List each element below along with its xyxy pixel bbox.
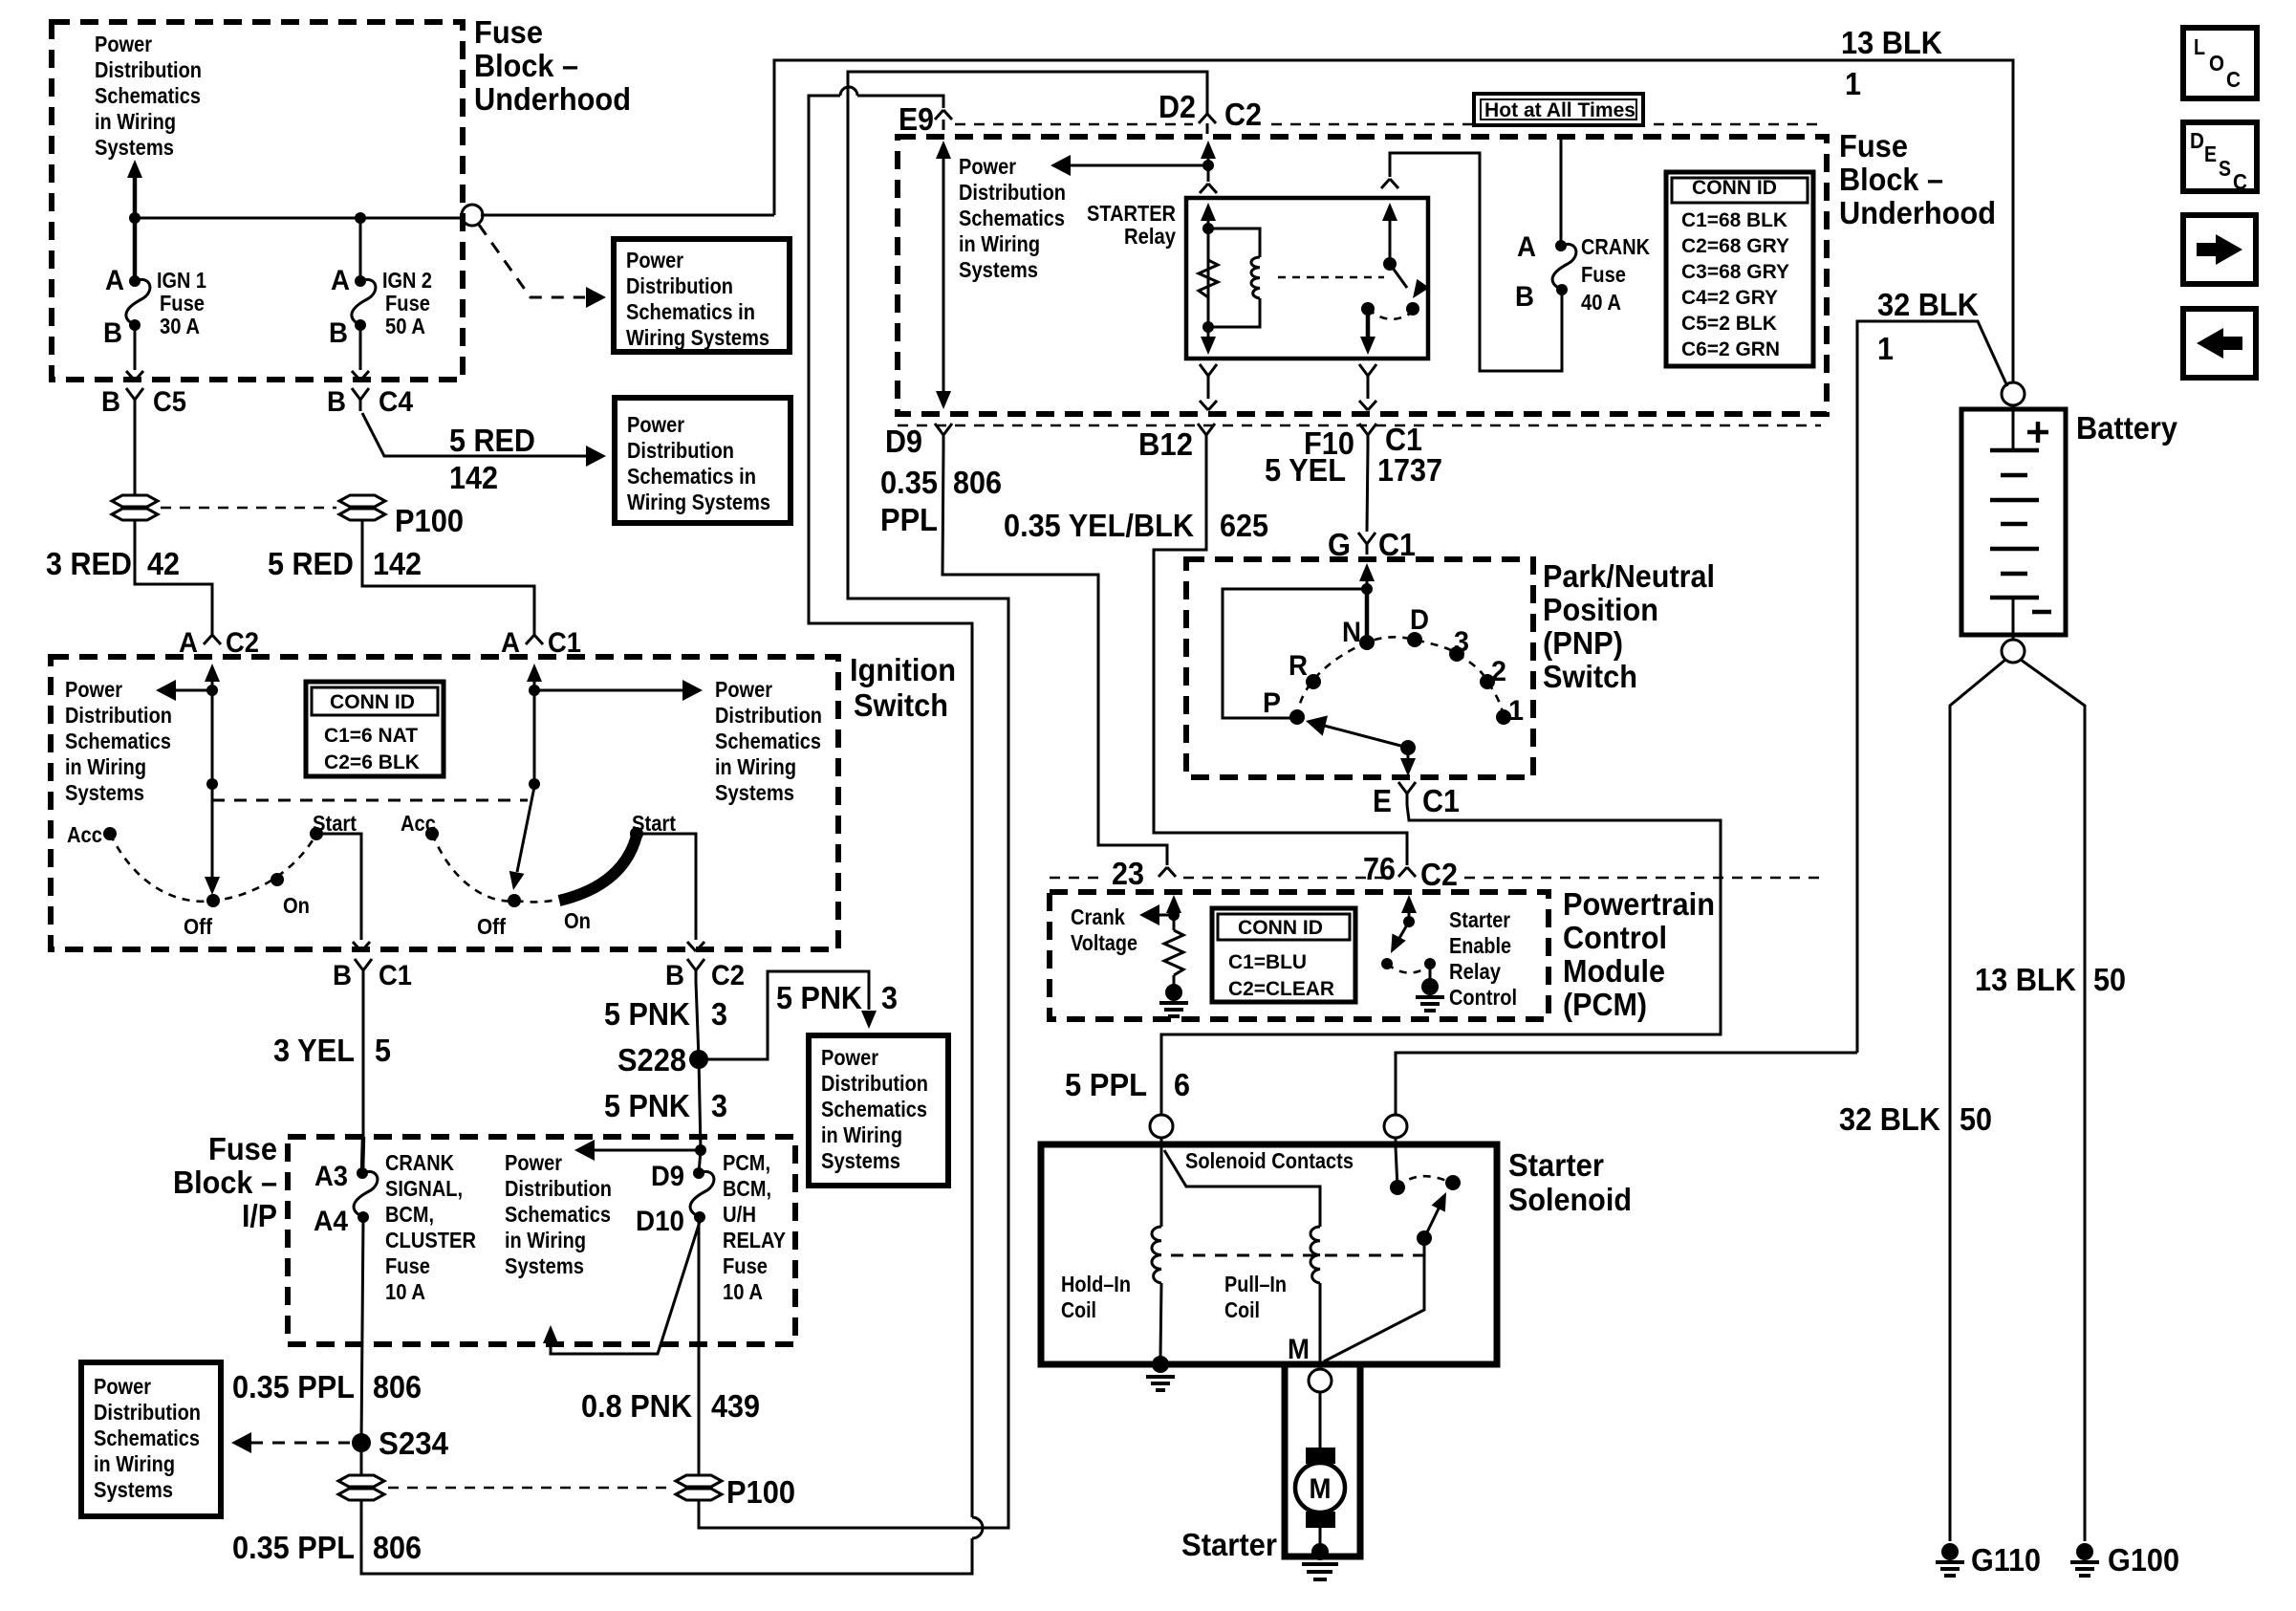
svg-text:CONN ID: CONN ID: [330, 691, 415, 713]
svg-text:D9: D9: [885, 424, 922, 459]
svg-text:Fuse: Fuse: [1839, 128, 1908, 163]
svg-text:in Wiring: in Wiring: [95, 109, 176, 134]
svg-text:0.35 PPL: 0.35 PPL: [232, 1530, 355, 1565]
PNP contacts arc: [1297, 637, 1504, 717]
svg-text:Systems: Systems: [715, 780, 794, 805]
battery plus sign: [2027, 430, 2048, 435]
crank voltage resistor: [1164, 930, 1183, 975]
svg-text:D: D: [1410, 604, 1429, 636]
wire IGN1 fuse feed: [133, 218, 138, 281]
PNP feed loop to P contact: [1361, 583, 1373, 595]
contact Acc pole2: [425, 827, 439, 840]
svg-text:C6=2 GRN: C6=2 GRN: [1681, 338, 1780, 360]
battery box: [1961, 409, 2066, 635]
svg-text:E9: E9: [899, 101, 934, 137]
connector D2 C2: [1199, 114, 1216, 123]
svg-text:Power: Power: [505, 1150, 562, 1175]
pull-in coil: [1310, 1227, 1320, 1283]
connector B C1: [355, 959, 372, 982]
main feed wire to battery 13 BLK 1: [481, 60, 2013, 382]
svg-text:Systems: Systems: [505, 1253, 584, 1278]
svg-text:5 RED: 5 RED: [268, 546, 354, 581]
svg-text:C1=6 NAT: C1=6 NAT: [324, 725, 418, 747]
wire 3 RED 42 upper: [134, 411, 137, 496]
svg-text:I/P: I/P: [242, 1198, 277, 1233]
fuse block I/P dashed box: [288, 1137, 795, 1344]
contact 3: [1449, 646, 1464, 662]
svg-text:C2=CLEAR: C2=CLEAR: [1228, 978, 1334, 1000]
svg-text:1: 1: [1845, 66, 1861, 101]
svg-text:625: 625: [1220, 508, 1268, 543]
svg-text:B: B: [333, 960, 352, 991]
svg-text:Ignition: Ignition: [850, 652, 956, 687]
svg-text:Systems: Systems: [94, 1477, 173, 1502]
svg-text:C2=68 GRY: C2=68 GRY: [1681, 235, 1789, 257]
svg-text:A4: A4: [314, 1206, 348, 1237]
svg-text:B: B: [665, 960, 684, 991]
wire 0.35 PPL 806 lower routing to E9: [361, 96, 972, 1574]
svg-text:Powertrain: Powertrain: [1563, 886, 1715, 922]
svg-text:50: 50: [1960, 1101, 1992, 1137]
wire 5 RED branch to ref box B: [362, 413, 586, 456]
contact Acc pole1: [103, 827, 117, 840]
svg-text:Systems: Systems: [959, 257, 1038, 282]
svg-text:Underhood: Underhood: [1839, 195, 1996, 230]
svg-text:C1=BLU: C1=BLU: [1228, 951, 1307, 973]
svg-text:Control: Control: [1563, 920, 1667, 955]
svg-text:5 PNK: 5 PNK: [604, 1088, 690, 1123]
svg-text:142: 142: [449, 460, 498, 495]
svg-text:Pull–In: Pull–In: [1224, 1272, 1287, 1296]
pole1 feed arrow into box: [205, 664, 220, 682]
svg-text:C1: C1: [548, 627, 581, 659]
pole2 wiper wire: [533, 690, 536, 784]
svg-text:Distribution: Distribution: [65, 703, 172, 728]
fuse IGN 2 50A feed: [359, 218, 362, 281]
svg-text:Distribution: Distribution: [959, 180, 1066, 205]
svg-text:M: M: [1310, 1473, 1332, 1505]
pole1 contacts arc: [110, 834, 316, 902]
svg-text:Start: Start: [313, 811, 357, 836]
svg-text:30 A: 30 A: [160, 314, 200, 338]
PNP feed arrow: [1359, 563, 1375, 581]
svg-text:Schematics: Schematics: [821, 1097, 927, 1121]
svg-text:S234: S234: [379, 1426, 449, 1461]
starter housing: [1285, 1364, 1360, 1557]
connector B C5: [126, 388, 143, 411]
svg-text:Starter: Starter: [1181, 1527, 1277, 1562]
svg-text:G110: G110: [1971, 1542, 2041, 1578]
pole2 wiper arrow: [517, 787, 534, 872]
starter motor wire top: [1319, 1392, 1322, 1448]
svg-text:C2: C2: [226, 627, 259, 659]
PCM ground right: [1429, 964, 1432, 980]
PNP wiper: [1400, 740, 1416, 755]
svg-text:A: A: [179, 627, 198, 659]
svg-text:Distribution: Distribution: [94, 1400, 201, 1425]
CONN ID box fb2: [1666, 172, 1813, 366]
svg-text:5 PNK: 5 PNK: [604, 996, 690, 1032]
svg-text:6: 6: [1174, 1067, 1190, 1102]
svg-text:Switch: Switch: [854, 687, 948, 723]
wire battery to solenoid contact: [1396, 1053, 1857, 1115]
LOC box: [2183, 28, 2257, 98]
svg-text:C4: C4: [379, 386, 413, 418]
svg-text:B: B: [327, 386, 346, 418]
svg-text:Schematics: Schematics: [959, 206, 1065, 230]
svg-text:5 PPL: 5 PPL: [1065, 1067, 1147, 1102]
dashed arrow S234 to ref box D: [250, 1442, 350, 1445]
svg-text:Schematics: Schematics: [94, 1426, 200, 1450]
svg-text:Off: Off: [184, 914, 212, 939]
connector B C2: [687, 959, 704, 982]
svg-text:C3=68 GRY: C3=68 GRY: [1681, 261, 1789, 283]
svg-text:Distribution: Distribution: [95, 57, 202, 82]
svg-text:142: 142: [373, 546, 422, 581]
pull-in coil feed: [1164, 1150, 1320, 1227]
svg-text:Power: Power: [959, 154, 1016, 179]
starter motor wire bottom: [1319, 1528, 1322, 1545]
svg-text:Hot at All Times: Hot at All Times: [1484, 99, 1635, 121]
svg-text:1737: 1737: [1377, 452, 1442, 488]
hold-in coil wire: [1160, 1147, 1163, 1227]
wire 5 RED 142 lower: [362, 519, 534, 635]
svg-text:0.35: 0.35: [880, 465, 938, 500]
PCM dashed box: [1050, 892, 1549, 1019]
battery - terminal: [2012, 598, 2015, 640]
svg-text:Distribution: Distribution: [626, 273, 733, 298]
svg-text:E: E: [1373, 783, 1392, 818]
svg-text:3: 3: [711, 996, 727, 1032]
wire 3 RED 42 lower: [135, 519, 212, 635]
svg-text:A: A: [331, 265, 350, 296]
connector 23: [1159, 867, 1176, 877]
ground wires from battery: [1950, 660, 2005, 1541]
svg-text:Underhood: Underhood: [474, 81, 631, 117]
PNP dashed box: [1186, 559, 1533, 777]
svg-text:Schematics in: Schematics in: [626, 299, 755, 324]
svg-text:5 YEL: 5 YEL: [1265, 452, 1346, 488]
ref box C power distribution schematics: [809, 1035, 948, 1186]
svg-text:806: 806: [373, 1530, 422, 1565]
svg-text:On: On: [564, 908, 591, 933]
svg-text:42: 42: [147, 546, 180, 581]
grommet P100 left: [112, 495, 158, 520]
connector B12: [1198, 424, 1215, 446]
svg-text:Switch: Switch: [1543, 659, 1637, 694]
svg-text:Coil: Coil: [1061, 1297, 1096, 1322]
wire 0.8 PNK 439: [699, 72, 1207, 1528]
svg-text:10 A: 10 A: [723, 1279, 763, 1304]
svg-text:C4=2 GRY: C4=2 GRY: [1681, 287, 1778, 309]
svg-text:in Wiring: in Wiring: [959, 231, 1040, 256]
svg-text:C1=68 BLK: C1=68 BLK: [1681, 209, 1787, 231]
connector into relay: [1200, 184, 1217, 193]
svg-text:(PCM): (PCM): [1563, 987, 1647, 1022]
svg-text:Wiring Systems: Wiring Systems: [626, 325, 769, 350]
node junction right: [355, 212, 366, 224]
svg-text:C5: C5: [153, 386, 186, 418]
splice S228: [689, 1050, 708, 1069]
svg-text:Off: Off: [477, 914, 506, 939]
svg-text:5: 5: [375, 1033, 391, 1068]
fuse block underhood 2 dashed box: [898, 137, 1827, 414]
svg-text:2: 2: [1491, 656, 1506, 687]
svg-text:32 BLK: 32 BLK: [1877, 287, 1979, 322]
battery minus sign: [2032, 610, 2051, 615]
ref box B power distribution schematics: [615, 398, 791, 523]
svg-text:Fuse: Fuse: [208, 1131, 277, 1166]
contact 2: [1480, 674, 1495, 689]
svg-text:32 BLK: 32 BLK: [1839, 1101, 1940, 1137]
relay resistor: [1199, 260, 1218, 297]
svg-text:D9: D9: [651, 1161, 684, 1192]
svg-text:in Wiring: in Wiring: [94, 1451, 175, 1476]
contact On pole1: [271, 873, 284, 886]
thin connector line bottom of fb2: [898, 425, 1821, 427]
svg-text:B12: B12: [1138, 426, 1193, 462]
contact Start pole2: [630, 827, 643, 840]
svg-text:Starter: Starter: [1508, 1147, 1604, 1183]
starter motor: [1295, 1463, 1345, 1513]
svg-text:3: 3: [881, 980, 898, 1015]
wire 5 PNK 3 upper: [696, 982, 699, 1059]
crank fuse feed: [1560, 137, 1563, 246]
svg-text:Distribution: Distribution: [715, 703, 822, 728]
svg-text:Starter: Starter: [1449, 907, 1510, 932]
svg-text:Wiring Systems: Wiring Systems: [627, 490, 770, 514]
contact N: [1359, 635, 1375, 650]
wire right terminal to contact: [1396, 1147, 1397, 1187]
starter solenoid box: [1041, 1144, 1497, 1364]
svg-text:BCM,: BCM,: [385, 1202, 434, 1227]
CONN ID box ignition: [306, 682, 444, 776]
svg-text:B: B: [103, 317, 122, 349]
svg-text:in Wiring: in Wiring: [715, 754, 796, 779]
contact P: [1289, 709, 1305, 725]
svg-text:13 BLK: 13 BLK: [1975, 962, 2076, 997]
note arrow left from relay feed: [1202, 160, 1214, 171]
ground G110: [1936, 1543, 1964, 1576]
svg-text:STARTER: STARTER: [1087, 201, 1176, 226]
svg-text:Relay: Relay: [1124, 224, 1176, 249]
wire 5 PNK 3 branch to ref box C: [699, 971, 869, 1059]
svg-text:806: 806: [373, 1369, 422, 1404]
svg-text:S228: S228: [617, 1042, 686, 1078]
svg-text:Position: Position: [1543, 592, 1658, 627]
svg-text:3 RED: 3 RED: [46, 546, 132, 581]
connector A C1: [526, 635, 543, 644]
svg-text:Enable: Enable: [1449, 933, 1511, 958]
hold-in coil: [1152, 1227, 1161, 1283]
svg-text:PCM,: PCM,: [723, 1150, 770, 1175]
svg-text:Start: Start: [632, 811, 676, 836]
svg-text:Fuse: Fuse: [385, 1253, 430, 1278]
U/H relay fuse D9 D10: [699, 1150, 701, 1173]
svg-text:B: B: [101, 386, 120, 418]
battery + terminal: [2002, 382, 2025, 405]
svg-text:806: 806: [953, 465, 1002, 500]
brush top: [1306, 1448, 1335, 1464]
svg-text:A3: A3: [314, 1161, 348, 1192]
D10 tap to note arrow: [551, 1222, 700, 1354]
svg-text:M: M: [1288, 1334, 1310, 1365]
relay switch: [1382, 203, 1397, 221]
wire 32 BLK 1: [1857, 321, 2007, 1053]
ground G100: [2070, 1543, 2099, 1576]
mechanical dashed link: [212, 799, 528, 802]
svg-text:CRANK: CRANK: [1581, 234, 1650, 259]
svg-text:Park/Neutral: Park/Neutral: [1543, 558, 1715, 594]
svg-text:IGN 1: IGN 1: [157, 268, 206, 293]
svg-text:Acc: Acc: [67, 822, 102, 847]
connector E9: [935, 110, 952, 120]
relay coil: [1208, 229, 1260, 257]
svg-text:Distribution: Distribution: [627, 438, 734, 463]
svg-text:in Wiring: in Wiring: [65, 754, 146, 779]
svg-text:C2: C2: [1420, 857, 1458, 892]
svg-text:Fuse: Fuse: [1581, 262, 1626, 287]
wire 5 YEL 1737: [1367, 446, 1368, 532]
svg-text:A: A: [1517, 231, 1536, 263]
relay out connectors: [1200, 364, 1217, 387]
PNP wiper out: [1407, 748, 1410, 764]
svg-text:Distribution: Distribution: [505, 1176, 612, 1201]
svg-text:439: 439: [711, 1388, 760, 1424]
svg-text:P100: P100: [395, 503, 464, 538]
svg-text:G100: G100: [2108, 1542, 2179, 1578]
svg-text:A: A: [105, 265, 124, 296]
svg-text:5 PNK: 5 PNK: [776, 980, 862, 1015]
starter relay box: [1186, 198, 1428, 359]
bus wire in left fuse block: [135, 217, 461, 220]
fuse IGN 2 50A: [355, 275, 366, 287]
svg-text:76: 76: [1363, 851, 1396, 886]
grommet P100 right: [339, 495, 385, 520]
starter enable relay control switch: [1401, 895, 1417, 913]
svg-text:CRANK: CRANK: [385, 1150, 454, 1175]
right arrow box: [2183, 215, 2256, 284]
contact Off pole1: [206, 894, 220, 907]
svg-text:Fuse: Fuse: [160, 291, 205, 316]
note arrow left pole1: [206, 685, 218, 696]
svg-text:D: D: [2190, 128, 2204, 153]
svg-text:Module: Module: [1563, 953, 1665, 989]
svg-text:C5=2 BLK: C5=2 BLK: [1681, 313, 1777, 335]
svg-text:Block –: Block –: [1839, 162, 1943, 197]
CONN ID box PCM: [1212, 908, 1355, 1002]
hop over 0.8 PNK wire: [972, 1517, 983, 1538]
note arrow left from PCM fuse: [695, 1144, 706, 1156]
svg-text:10 A: 10 A: [385, 1279, 425, 1304]
svg-text:O: O: [2209, 51, 2224, 76]
svg-text:Systems: Systems: [65, 780, 144, 805]
svg-text:C1: C1: [1422, 783, 1460, 818]
svg-text:CONN ID: CONN ID: [1238, 917, 1323, 939]
crank fuse to relay switch: [1390, 153, 1562, 371]
ignition switch dashed box: [51, 657, 838, 949]
brush bottom: [1306, 1512, 1335, 1528]
svg-text:Power: Power: [627, 412, 684, 437]
left arrow box: [2183, 309, 2256, 378]
contact On pole2 / engaged thick arc: [559, 836, 637, 901]
svg-text:CLUSTER: CLUSTER: [385, 1228, 476, 1252]
node junction left: [129, 212, 141, 224]
svg-text:N: N: [1342, 617, 1361, 648]
svg-text:D10: D10: [636, 1206, 684, 1237]
contact Start pole1: [310, 827, 323, 840]
solenoid terminal left: [1150, 1115, 1173, 1138]
svg-text:U/H: U/H: [723, 1202, 756, 1227]
svg-text:5 RED: 5 RED: [449, 423, 535, 458]
svg-text:Hold–In: Hold–In: [1061, 1272, 1131, 1296]
solenoid mech dashed link: [1171, 1254, 1424, 1257]
svg-text:SIGNAL,: SIGNAL,: [385, 1176, 463, 1201]
contact 1: [1496, 709, 1511, 725]
grommet P100 bottom left: [360, 1443, 363, 1476]
svg-text:3 YEL: 3 YEL: [273, 1033, 355, 1068]
svg-text:L: L: [2194, 34, 2205, 59]
connector B C4: [352, 388, 369, 411]
svg-text:50: 50: [2093, 962, 2126, 997]
svg-text:PPL: PPL: [880, 502, 938, 537]
hop over D2 wire: [840, 87, 857, 96]
thin connector line PCM: [1050, 877, 1101, 880]
svg-text:Coil: Coil: [1224, 1297, 1260, 1322]
wire 5 PNK 3 lower: [699, 1059, 701, 1150]
svg-text:Fuse: Fuse: [723, 1253, 768, 1278]
svg-text:Schematics: Schematics: [505, 1202, 611, 1227]
svg-text:C: C: [2233, 169, 2247, 194]
svg-text:Power: Power: [821, 1045, 878, 1070]
svg-text:BCM,: BCM,: [723, 1176, 771, 1201]
grommet P100 bottom right: [676, 1475, 722, 1500]
pole1 wiper wire: [211, 690, 214, 877]
connector F10 C1: [1359, 424, 1376, 446]
svg-text:C2=6 BLK: C2=6 BLK: [324, 751, 420, 773]
contact R: [1306, 674, 1321, 689]
svg-text:Power: Power: [715, 677, 772, 702]
fuse IGN 1 30A: [129, 275, 141, 287]
svg-text:Power: Power: [65, 677, 122, 702]
wire 0.35 YEL/BLK 625 to PCM 76: [1154, 446, 1407, 865]
wire IGN2 fuse out: [359, 325, 362, 370]
svg-text:IGN 2: IGN 2: [382, 268, 432, 293]
svg-text:1: 1: [1508, 695, 1524, 727]
svg-text:Power: Power: [626, 248, 683, 272]
svg-text:P: P: [1263, 687, 1281, 719]
wire E C1 to solenoid 5 PPL 6: [1161, 805, 1721, 1115]
DESC box: [2183, 122, 2257, 191]
battery cells: [2012, 405, 2015, 450]
svg-text:Solenoid: Solenoid: [1508, 1182, 1632, 1217]
splice S234: [352, 1433, 371, 1452]
svg-text:C: C: [2226, 67, 2241, 92]
svg-text:Acc: Acc: [401, 811, 436, 836]
svg-text:On: On: [283, 893, 310, 918]
wire start pole1 out: [316, 834, 361, 940]
svg-text:Power: Power: [95, 32, 152, 56]
svg-text:R: R: [1289, 650, 1308, 682]
wire 0.35 PPL 806 upper: [361, 1217, 363, 1443]
svg-text:A: A: [501, 627, 520, 659]
M terminal circle: [1309, 1369, 1332, 1392]
svg-text:Fuse: Fuse: [474, 14, 543, 50]
svg-text:50 A: 50 A: [385, 314, 425, 338]
fuse CRANK 40A: [1555, 240, 1567, 251]
svg-text:0.8 PNK: 0.8 PNK: [581, 1388, 692, 1424]
connector A C2: [204, 635, 221, 644]
